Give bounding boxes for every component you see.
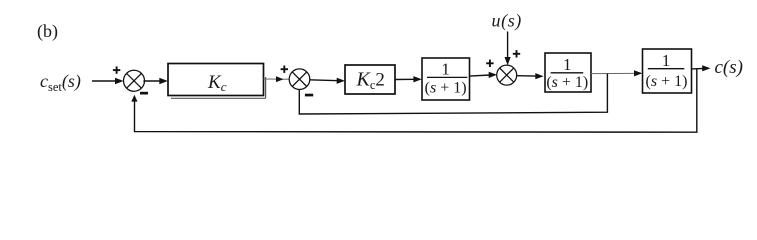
value 1/(s+1) of G2 [546,55,588,91]
wire summer 2 to block Kc2 [309,79,338,82]
wire u(s) down into summer 3 [507,32,509,60]
value 1/(s+1) of G1 [425,60,468,97]
wire summer 3 to block G2 [517,75,538,77]
block shadow Kc [171,77,266,98]
summing junction 3 [497,65,517,85]
block G3 1/(s+1) [643,49,692,93]
summing junction 1 [124,70,145,91]
svg-text:(s + 1): (s + 1) [546,74,588,91]
plus sign left of summer 3 [486,60,493,67]
block Kc2 [345,65,395,94]
minus sign at summer 1 [140,92,148,95]
wire input to summer 1 [92,80,117,82]
svg-text:cset(s): cset(s) [40,71,81,94]
wire Kc to summer 2 [264,78,290,80]
wire Kc2 to block G1 [395,78,415,80]
minus sign at summer 2 [305,94,313,97]
svg-text:1: 1 [441,60,450,79]
svg-text:(b): (b) [37,21,58,42]
plus sign at summer 2 [281,66,288,73]
block Kc [168,64,264,96]
wire G2 to block G3 [591,72,636,74]
plus sign at summer 1 [113,66,120,73]
wire output to c(s) [692,67,704,70]
wire summer 1 to block Kc [143,80,161,82]
wire G1 to summer 3 [470,75,491,76]
svg-text:c(s): c(s) [715,57,743,78]
svg-text:u(s): u(s) [492,11,522,32]
inner feedback wire: tap after G2 down, left, up into summer 2 [299,74,607,115]
value 1/(s+1) of G3 [646,51,688,90]
block G2 1/(s+1) [545,53,591,92]
svg-text:(s + 1): (s + 1) [425,80,467,97]
svg-text:1: 1 [563,55,572,74]
plus sign above-right of summer 3 [513,50,520,57]
summing junction 2 [289,69,310,90]
svg-text:1: 1 [662,51,671,70]
outer feedback wire: tap after G3 down, left, up into summer 1 [135,69,697,133]
svg-text:(s + 1): (s + 1) [646,73,688,90]
block G1 1/(s+1) [422,58,470,100]
